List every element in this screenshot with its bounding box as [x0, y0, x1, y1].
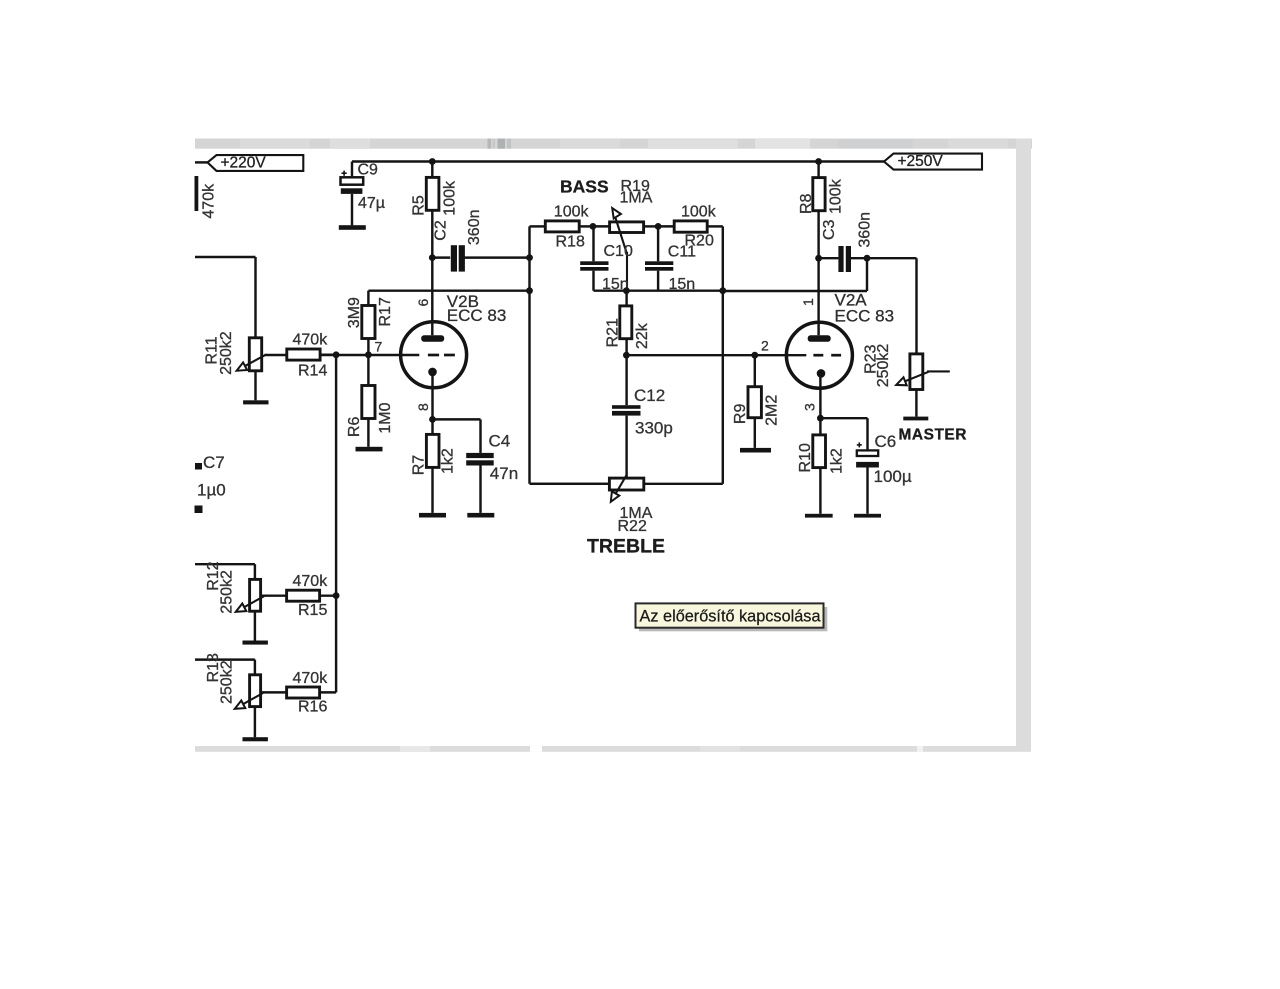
label V2A ECC 83 [835, 306, 895, 325]
resistor R17 [362, 306, 375, 339]
label V2A pin 3 [802, 403, 818, 411]
power flag +220V [208, 154, 304, 171]
svg-text:2: 2 [761, 338, 769, 354]
potentiometer R11 [249, 338, 261, 371]
resistor R21 [620, 306, 632, 339]
capacitor C2 [451, 245, 465, 271]
scan bottom gray band [195, 746, 1031, 752]
label R18 [556, 234, 585, 251]
wire R22 left [530, 483, 610, 485]
label R8 [798, 193, 815, 214]
label R17 [377, 297, 394, 326]
node V2A grid junction [751, 352, 758, 359]
wire R13 to R16 [261, 691, 287, 693]
ground R10 [805, 514, 833, 518]
capacitor C12 [612, 405, 641, 415]
wire to C2 [432, 256, 450, 258]
tube V2B anode [421, 335, 444, 341]
node C2 right junction [526, 254, 533, 261]
wire tone input bus [530, 226, 610, 483]
svg-text:R22: R22 [618, 518, 647, 535]
wire R22 right [644, 483, 723, 485]
label V2B ECC 83 [447, 306, 507, 325]
label C11 15n [669, 276, 696, 293]
label R11 250k2 [218, 331, 235, 375]
wire C12 bottom [625, 416, 627, 477]
wire R16 right [320, 691, 337, 693]
ground R12 [243, 641, 268, 645]
svg-text:C7: C7 [203, 453, 225, 472]
svg-text:R18: R18 [556, 234, 585, 251]
svg-text:Az előerősítő kapcsolása: Az előerősítő kapcsolása [640, 607, 822, 626]
wire R18 right [579, 225, 593, 227]
wire R9 top [754, 355, 756, 387]
node R21 top junction [623, 287, 630, 294]
node rail-R5 junction [429, 158, 436, 165]
label C12 330p [635, 419, 673, 438]
svg-text:250k2: 250k2 [875, 344, 892, 388]
label V2B pin 7 [375, 339, 383, 355]
label R16 [298, 699, 327, 716]
svg-text:C11: C11 [668, 243, 696, 260]
wire tone output to grid [626, 354, 806, 356]
svg-text:C9: C9 [358, 162, 379, 179]
node R18-R19 junction [590, 223, 597, 230]
resistor R16 [287, 687, 320, 698]
svg-text:C10: C10 [604, 243, 633, 260]
capacitor C11 [645, 261, 673, 270]
label R20 [685, 233, 714, 250]
power flag +250V [884, 153, 982, 170]
label V2B pin 6 [415, 299, 431, 307]
wire R20 right [707, 225, 723, 227]
svg-text:C6: C6 [875, 432, 897, 451]
label C7 1µ0 [197, 480, 226, 499]
svg-text:3M9: 3M9 [346, 297, 363, 328]
label V2B pin 8 [415, 403, 431, 411]
wire R7 top [431, 419, 433, 434]
caption box shadow [639, 607, 827, 631]
caption box [636, 603, 824, 627]
wire grid V2B [265, 354, 420, 356]
label R19 [621, 178, 650, 195]
svg-text:470k: 470k [200, 183, 217, 219]
svg-text:3: 3 [802, 403, 818, 411]
node tone output junction [623, 352, 630, 359]
potentiometer R19 (bass) [610, 222, 644, 233]
wire C11 bottom [657, 271, 659, 291]
label R5 100k [442, 180, 459, 216]
label 47µ [358, 195, 385, 212]
label C3 [821, 219, 838, 240]
tube V2B grid dashes [428, 354, 455, 357]
potentiometer R22 (treble) [609, 478, 643, 490]
capacitor C9 [341, 171, 364, 194]
pot R23 wiper [896, 371, 950, 385]
wire input R13 [195, 660, 255, 675]
svg-text:R10: R10 [797, 443, 814, 472]
wire to +220V flag [195, 161, 208, 163]
label C9 [358, 162, 379, 179]
tube V2A anode [808, 335, 831, 342]
wire R10 top [819, 418, 821, 435]
wire cathode to C6 [820, 418, 867, 450]
svg-text:ECC 83: ECC 83 [447, 306, 507, 325]
label R6 1M0 [377, 402, 394, 433]
svg-text:C4: C4 [489, 431, 511, 450]
svg-text:6: 6 [415, 299, 431, 307]
wire V2B plate pin6 [431, 258, 433, 336]
ground C6 [854, 514, 881, 518]
label R15 470k [293, 573, 329, 590]
svg-text:C2: C2 [433, 220, 450, 241]
wire R10 bottom [819, 468, 821, 514]
wire C10 top [592, 226, 594, 261]
tube V2B cathode [428, 368, 437, 420]
wire R20 output bus [722, 226, 724, 483]
node R15 bus junction [333, 592, 340, 599]
label R10 [797, 443, 814, 472]
wire R12 bottom [254, 611, 256, 640]
wire R18 left [530, 225, 546, 227]
node C3 left junction [815, 255, 822, 262]
potentiometer R12 [250, 579, 261, 611]
resistor R20 [674, 221, 707, 232]
ground R6 [356, 447, 383, 452]
label C4 47n [490, 464, 518, 483]
svg-text:100k: 100k [442, 180, 459, 216]
label R6 [346, 417, 363, 438]
wire C3 link down [723, 258, 867, 291]
pot R22 wiper [611, 475, 627, 502]
wire input top R11 [195, 257, 256, 338]
svg-text:100k: 100k [554, 204, 590, 221]
capacitor C10 [580, 261, 608, 270]
label R23 [862, 344, 879, 373]
label C3 360n [856, 212, 873, 248]
label R8 100k [827, 178, 844, 214]
ground R13 [243, 737, 268, 741]
label R14 [298, 363, 327, 380]
node V2A cathode junction [817, 415, 824, 422]
label R10 1k2 [829, 448, 846, 474]
wire R6 top [367, 355, 369, 386]
resistor R6 [362, 386, 375, 419]
node rail-R8 junction [815, 158, 822, 165]
svg-text:R15: R15 [298, 602, 327, 619]
node grid bus junction [333, 351, 340, 358]
node C2 left junction [429, 254, 436, 261]
ground R7 [419, 513, 446, 518]
label R13 250k2 [219, 660, 236, 704]
svg-text:100µ: 100µ [874, 467, 912, 486]
label R12 250k2 [219, 570, 236, 614]
svg-text:ECC 83: ECC 83 [835, 306, 895, 325]
label R23 250k2 [875, 344, 892, 388]
svg-text:R7: R7 [410, 455, 427, 476]
wire R19 left [593, 225, 610, 227]
label R7 [410, 455, 427, 476]
svg-text:250k2: 250k2 [219, 660, 236, 704]
wire C11 top [657, 226, 659, 261]
wire R17 bottom [367, 339, 369, 355]
label R17 3M9 [346, 297, 363, 328]
svg-text:1MA: 1MA [620, 190, 653, 207]
wire cathode to C4 [433, 419, 481, 453]
ground C9 [339, 225, 366, 230]
svg-text:22k: 22k [634, 322, 651, 349]
scan right gray band [1016, 139, 1031, 752]
svg-text:470k: 470k [293, 332, 329, 349]
ground R23 [903, 417, 928, 421]
wire V2A plate pin1 [817, 258, 819, 335]
label MASTER [899, 427, 967, 444]
tube V2A grid dashes [813, 354, 841, 357]
svg-text:470k: 470k [293, 573, 329, 590]
scan background area [195, 139, 1031, 752]
svg-text:330p: 330p [635, 419, 673, 438]
label C2 360n [466, 210, 483, 246]
svg-text:R9: R9 [732, 404, 749, 425]
wire R19 right [644, 225, 659, 227]
svg-text:BASS: BASS [560, 177, 609, 197]
label V2A pin 1 [800, 298, 816, 306]
svg-text:R5: R5 [411, 195, 428, 216]
ground R9 [740, 448, 771, 453]
label V2A [835, 290, 868, 309]
wire C9 to rail [351, 162, 353, 179]
svg-text:2M2: 2M2 [763, 395, 780, 426]
svg-text:R21: R21 [605, 318, 622, 347]
label C7 [203, 453, 225, 472]
resistor R5 [426, 177, 439, 210]
wire input R12 [195, 564, 255, 579]
wire R15 right [320, 594, 337, 596]
label R22 1MA [620, 505, 653, 522]
label V2B [447, 292, 479, 311]
tube V2A envelope [786, 322, 852, 388]
label R7 1k2 [439, 448, 456, 474]
wire rail to R5 [431, 162, 433, 178]
label R12 [205, 561, 222, 590]
capacitor C6 [856, 442, 879, 467]
label R15 [298, 602, 327, 619]
label R9 [732, 404, 749, 425]
wire R9 bottom [754, 418, 756, 448]
tube V2A cathode [817, 369, 826, 418]
svg-text:MASTER: MASTER [899, 427, 967, 444]
svg-text:C12: C12 [634, 386, 665, 405]
wire to R23 top [915, 258, 917, 354]
wire rail to R8 [817, 162, 819, 178]
scan top gray band [195, 139, 1032, 149]
svg-text:250k2: 250k2 [218, 331, 235, 375]
label R21 [605, 318, 622, 347]
node R20 bus junction [719, 287, 726, 294]
wire C6 to ground [866, 468, 868, 514]
svg-text:360n: 360n [466, 210, 483, 246]
wire R17 top [368, 291, 529, 306]
svg-text:1M0: 1M0 [377, 402, 394, 433]
label C10 [604, 243, 633, 260]
label R13 [205, 653, 222, 682]
label R21 22k [634, 322, 651, 349]
node bus-R17 junction [526, 287, 533, 294]
ground R11 [243, 400, 268, 404]
capacitor C7 stubs (cropped) [195, 463, 203, 513]
pot R11 wiper [237, 355, 266, 371]
resistor R8 [813, 178, 825, 211]
wire R11 bottom [254, 371, 256, 401]
wire input bus vertical [335, 355, 337, 693]
wire R14 right [320, 353, 336, 355]
capacitor C4 [466, 453, 494, 466]
svg-text:1µ0: 1µ0 [197, 480, 226, 499]
node C3 right junction [864, 255, 871, 262]
svg-text:R14: R14 [298, 363, 327, 380]
scan top band texture [240, 139, 1008, 149]
node V2B cathode junction [429, 416, 436, 423]
svg-text:47µ: 47µ [358, 195, 385, 212]
svg-text:C3: C3 [821, 219, 838, 240]
potentiometer R13 [250, 675, 261, 707]
svg-text:1k2: 1k2 [439, 448, 456, 474]
wire R12 to R15 [261, 594, 287, 596]
label R18 100k [554, 204, 590, 221]
pot R12 wiper [236, 596, 264, 612]
resistor R14 [287, 349, 320, 360]
label C2 [433, 220, 450, 241]
svg-text:+220V: +220V [221, 154, 267, 171]
resistor R10 [813, 435, 826, 468]
svg-text:+250V: +250V [898, 153, 944, 170]
wire R5 to C2 node [431, 210, 433, 257]
svg-text:R16: R16 [298, 699, 327, 716]
resistor R9 [748, 387, 761, 418]
resistor R15 [287, 590, 320, 601]
tube V2B envelope [401, 322, 467, 388]
wire R21 bottom [625, 339, 627, 356]
svg-text:100k: 100k [681, 204, 717, 221]
wire C2 to bus [463, 256, 529, 258]
label R11 [204, 336, 221, 364]
svg-text:360n: 360n [856, 212, 873, 248]
wire C9 to ground [351, 194, 353, 226]
label R9 2M2 [763, 395, 780, 426]
wire R21 top [625, 291, 627, 306]
wire +250V rail [352, 160, 884, 162]
wire C12 top [625, 355, 627, 405]
node grid R17 junction [365, 351, 372, 358]
label C4 [489, 431, 511, 450]
svg-text:47n: 47n [490, 464, 518, 483]
label R22 [618, 518, 647, 535]
svg-text:470k: 470k [293, 670, 329, 687]
capacitor C3 [838, 246, 851, 272]
svg-text:R8: R8 [798, 193, 815, 214]
wire C3 right [851, 257, 917, 259]
svg-text:R6: R6 [346, 417, 363, 438]
svg-text:7: 7 [375, 339, 383, 355]
svg-text:1k2: 1k2 [829, 448, 846, 474]
label C12 [634, 386, 665, 405]
wire to C3 [819, 257, 839, 259]
pot R19 wiper [612, 208, 627, 291]
label BASS [560, 177, 609, 197]
resistor R7 [426, 434, 439, 467]
label R5 [411, 195, 428, 216]
label 470k stub [200, 183, 217, 219]
node R19-R20 junction [655, 223, 662, 230]
wire C4 to ground [479, 466, 481, 513]
wire tone bottom [594, 289, 723, 291]
wire R6 bottom [367, 419, 369, 447]
label C6 [875, 432, 897, 451]
label C6 100µ [874, 467, 912, 486]
svg-text:R17: R17 [377, 297, 394, 326]
label R14 470k [293, 332, 329, 349]
wire C10 bottom [592, 271, 594, 291]
label R16 470k [293, 670, 329, 687]
ground C4 [467, 513, 494, 518]
svg-text:TREBLE: TREBLE [587, 536, 665, 558]
label R19 1MA [620, 190, 653, 207]
label R20 100k [681, 204, 717, 221]
label C10 15n [602, 276, 629, 293]
pot R13 wiper [235, 693, 263, 709]
svg-text:100k: 100k [827, 178, 844, 214]
wire R23 bottom [915, 390, 917, 417]
wire R13 bottom [254, 707, 256, 738]
label V2A pin 2 [761, 338, 769, 354]
potentiometer R23 (master) [910, 354, 923, 390]
label TREBLE [587, 536, 665, 558]
svg-text:1: 1 [800, 298, 816, 306]
wire R7 bottom [431, 467, 433, 513]
svg-text:8: 8 [415, 403, 431, 411]
wire R8 bottom [817, 211, 819, 259]
resistor R18 [545, 221, 579, 232]
resistor 470k stub (cropped) [195, 176, 199, 211]
svg-text:250k2: 250k2 [219, 570, 236, 614]
wire R20 left [658, 225, 674, 227]
label C11 [668, 243, 696, 260]
